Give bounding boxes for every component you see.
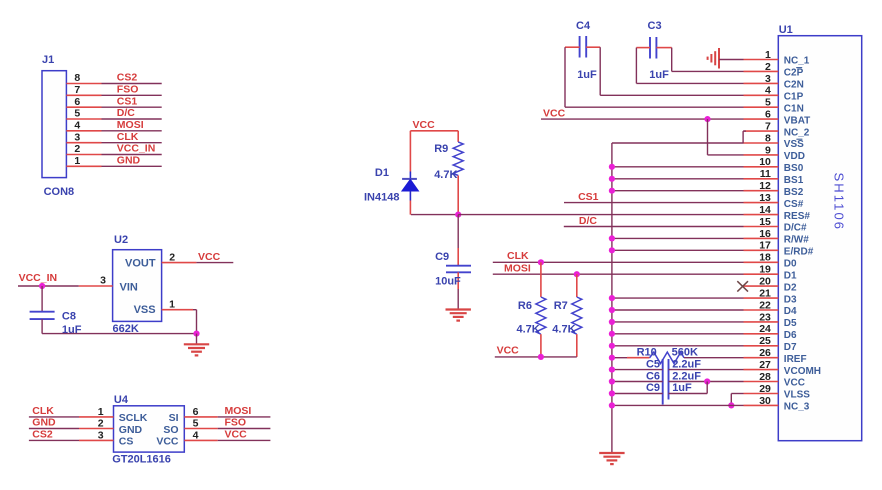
svg-text:26: 26 bbox=[759, 347, 771, 359]
wire net FSO bbox=[102, 94, 162, 96]
svg-text:FSO: FSO bbox=[117, 84, 139, 96]
svg-text:VIN: VIN bbox=[120, 281, 138, 293]
node CLK/R6 junction bbox=[538, 259, 544, 265]
wire ground bus to pin 11 (BS1) bbox=[612, 178, 744, 180]
svg-text:2.2uF: 2.2uF bbox=[672, 370, 701, 382]
ground (C9) bbox=[446, 308, 471, 310]
pin 2 of U1 (C2P) bbox=[744, 70, 779, 72]
svg-text:20: 20 bbox=[759, 276, 771, 288]
svg-text:4.7K: 4.7K bbox=[517, 324, 540, 336]
pin 6 of U4 (SI) bbox=[184, 416, 217, 418]
node bus junction pin 12 bbox=[609, 188, 615, 194]
pin 11 of U1 (BS1) bbox=[744, 178, 779, 180]
wire net VCC_IN bbox=[102, 154, 162, 156]
pin 4 of J1 bbox=[66, 130, 101, 132]
diode D1 IN4148 bbox=[409, 131, 411, 172]
pin 6 of U1 (VBAT) bbox=[744, 118, 779, 120]
wire net MOSI to pin 19 (D1) bbox=[493, 273, 744, 275]
node VCC_IN junction bbox=[39, 283, 45, 289]
svg-text:25: 25 bbox=[759, 335, 771, 347]
svg-text:MOSI: MOSI bbox=[504, 263, 531, 275]
svg-text:C1N: C1N bbox=[784, 103, 804, 114]
wire net VCC (right) bbox=[218, 439, 271, 441]
node RES junction bbox=[455, 212, 461, 218]
node bus junction (C5 row) bbox=[609, 367, 615, 373]
capacitor C8 bbox=[41, 286, 43, 312]
svg-text:5: 5 bbox=[765, 97, 771, 109]
wire ground bus to pin 24 (D6) bbox=[612, 333, 744, 335]
svg-text:D4: D4 bbox=[784, 306, 797, 317]
wire pin 1 to chassis ground bbox=[719, 59, 744, 61]
pin 19 of U1 (D1) bbox=[744, 273, 779, 275]
svg-text:CS#: CS# bbox=[784, 199, 804, 210]
pin 4 of U1 (C1P) bbox=[744, 94, 779, 96]
svg-text:CS2: CS2 bbox=[32, 429, 53, 441]
svg-text:560K: 560K bbox=[672, 346, 698, 358]
svg-text:E/RD#: E/RD# bbox=[784, 247, 814, 258]
pin 20 of U1 (D2) bbox=[744, 285, 779, 287]
wire net GND (left) bbox=[29, 428, 79, 430]
node VBAT junction bbox=[704, 116, 710, 122]
node VCC junction pin 28 bbox=[704, 378, 710, 384]
pin 2 of U2 (VOUT) bbox=[162, 262, 197, 264]
wire net MOSI bbox=[102, 130, 162, 132]
pin 13 of U1 (CS#) bbox=[744, 202, 779, 204]
wire D1 to RES junction bbox=[411, 214, 458, 216]
svg-text:RES#: RES# bbox=[784, 211, 811, 222]
pin 1 of J1 bbox=[66, 165, 101, 167]
pin 1 of U4 (SCLK) bbox=[79, 416, 114, 418]
wire net CS1 to pin 13 (CS#) bbox=[564, 202, 744, 204]
svg-text:2.2uF: 2.2uF bbox=[672, 358, 701, 370]
pin 22 of U1 (D4) bbox=[744, 309, 779, 311]
svg-text:VCOMH: VCOMH bbox=[784, 366, 821, 377]
pin 23 of U1 (D5) bbox=[744, 321, 779, 323]
svg-text:4.7K: 4.7K bbox=[552, 324, 575, 336]
svg-text:VCC: VCC bbox=[198, 251, 221, 263]
svg-text:D/C: D/C bbox=[579, 215, 598, 227]
pin 25 of U1 (D7) bbox=[744, 345, 779, 347]
svg-text:C2N: C2N bbox=[784, 80, 804, 91]
svg-text:BS1: BS1 bbox=[784, 175, 804, 186]
svg-text:D7: D7 bbox=[784, 342, 797, 353]
svg-text:11: 11 bbox=[760, 168, 771, 180]
wire net CS1 bbox=[102, 106, 162, 108]
svg-text:IREF: IREF bbox=[784, 354, 807, 365]
svg-text:CS2: CS2 bbox=[117, 72, 138, 84]
svg-text:13: 13 bbox=[759, 192, 771, 204]
svg-text:4: 4 bbox=[193, 430, 199, 442]
svg-text:NC_2: NC_2 bbox=[784, 127, 810, 138]
svg-text:17: 17 bbox=[759, 240, 771, 252]
node bus junction pin 16 bbox=[609, 235, 615, 241]
wire R10 to pin 26 (IREF) bbox=[684, 357, 744, 359]
svg-text:VCC: VCC bbox=[225, 429, 248, 441]
svg-text:SI: SI bbox=[169, 412, 179, 424]
pin 14 of U1 (RES#) bbox=[744, 214, 779, 216]
svg-text:21: 21 bbox=[759, 288, 771, 300]
svg-text:D/C#: D/C# bbox=[784, 223, 807, 234]
svg-text:C6: C6 bbox=[646, 370, 660, 382]
svg-text:VSS: VSS bbox=[784, 139, 804, 150]
svg-text:VOUT: VOUT bbox=[125, 258, 156, 270]
svg-text:1: 1 bbox=[98, 406, 104, 418]
regulator U2 body bbox=[113, 250, 162, 322]
resistor R9 bbox=[457, 131, 459, 142]
svg-text:29: 29 bbox=[759, 383, 771, 395]
svg-text:28: 28 bbox=[759, 371, 771, 383]
wire ground bus to pin 10 (BS0) bbox=[612, 166, 744, 168]
svg-text:U4: U4 bbox=[114, 394, 129, 406]
pin 1 of U2 (VSS) bbox=[162, 309, 193, 311]
capacitor C9 (10uF) bbox=[457, 215, 459, 248]
svg-text:VSS: VSS bbox=[134, 304, 156, 316]
wire net D/C to pin 15 (D/C#) bbox=[564, 226, 744, 228]
pin 9 of U1 (VDD) bbox=[744, 154, 779, 156]
wire C5 to pin 27 (VCOMH) bbox=[669, 369, 744, 371]
wire ground bus to pin 22 (D4) bbox=[612, 309, 744, 311]
resistor R10 bbox=[650, 352, 684, 363]
pin 2 of J1 bbox=[66, 154, 101, 156]
pin 16 of U1 (R/W#) bbox=[744, 237, 779, 239]
wire VCC from U2 pin 2 bbox=[196, 262, 233, 264]
ground (U2) bbox=[196, 334, 198, 345]
pin 26 of U1 (IREF) bbox=[744, 357, 779, 359]
pin 3 of J1 bbox=[66, 142, 101, 144]
svg-text:C5: C5 bbox=[646, 358, 660, 370]
node ground junction bbox=[193, 331, 199, 337]
node bus junction pin 30 bbox=[609, 402, 615, 408]
svg-text:10uF: 10uF bbox=[435, 276, 461, 288]
svg-text:C9: C9 bbox=[646, 382, 660, 394]
svg-text:3: 3 bbox=[765, 73, 771, 85]
svg-text:MOSI: MOSI bbox=[117, 119, 144, 131]
svg-text:R6: R6 bbox=[518, 300, 532, 312]
node bus junction pin 25 bbox=[609, 343, 615, 349]
connector J1 body bbox=[42, 71, 66, 178]
svg-text:CLK: CLK bbox=[507, 250, 529, 262]
svg-text:D3: D3 bbox=[784, 294, 797, 305]
node bus junction pin 22 bbox=[609, 307, 615, 313]
svg-text:9: 9 bbox=[765, 144, 771, 156]
wire net CS2 (left) bbox=[29, 439, 79, 441]
pin 30 of U1 (NC_3) bbox=[744, 404, 779, 406]
svg-text:6: 6 bbox=[193, 406, 199, 418]
svg-text:18: 18 bbox=[759, 252, 771, 264]
wire VCC bar (pullups) bbox=[495, 356, 577, 358]
svg-text:1uF: 1uF bbox=[649, 69, 669, 81]
svg-text:GND: GND bbox=[32, 417, 56, 429]
wire C3 right to pin 2 (C2P) bbox=[671, 48, 673, 72]
svg-text:CON8: CON8 bbox=[44, 186, 75, 198]
svg-text:VBAT: VBAT bbox=[784, 115, 810, 126]
svg-text:14: 14 bbox=[759, 204, 771, 216]
pin 8 of J1 bbox=[66, 83, 101, 85]
wire RES junction to pin 14 (RES#) bbox=[458, 214, 743, 216]
pin 3 of U2 (VIN) bbox=[79, 285, 113, 287]
svg-text:D1: D1 bbox=[784, 270, 797, 281]
wire C9(1uF) up to VCC net bbox=[669, 393, 708, 395]
svg-text:NC_3: NC_3 bbox=[784, 402, 810, 413]
svg-text:CLK: CLK bbox=[117, 131, 139, 143]
svg-text:SCLK: SCLK bbox=[119, 412, 148, 424]
overline on VSS pin name bbox=[796, 138, 802, 140]
pin 28 of U1 (VCC) bbox=[744, 381, 779, 383]
svg-text:D0: D0 bbox=[784, 259, 797, 270]
wire bus to capacitor C5 bbox=[612, 369, 663, 371]
wire ground bus to pin 12 (BS2) bbox=[612, 190, 744, 192]
svg-text:D/C: D/C bbox=[117, 107, 136, 119]
node bus junction pin 23 bbox=[609, 319, 615, 325]
node bus junction pin 17 bbox=[609, 247, 615, 253]
node VLSS/NC_3 junction bbox=[728, 402, 734, 408]
IC U1 body bbox=[778, 36, 861, 441]
pin 6 of J1 bbox=[66, 106, 101, 108]
svg-text:1uF: 1uF bbox=[672, 382, 692, 394]
node MOSI/R7 junction bbox=[574, 271, 580, 277]
pin 15 of U1 (D/C#) bbox=[744, 226, 779, 228]
svg-text:6: 6 bbox=[765, 109, 771, 121]
wire VBAT branch to pin 9 (VDD) bbox=[707, 119, 709, 155]
svg-text:8: 8 bbox=[765, 132, 771, 144]
wire net CLK bbox=[102, 142, 162, 144]
capacitor C5 plates (stack) bbox=[662, 359, 664, 405]
wire pin 29 (VLSS) jog to ground row bbox=[731, 393, 743, 395]
svg-text:C9: C9 bbox=[435, 251, 449, 263]
wire bus to R10 bbox=[612, 357, 627, 359]
svg-text:FSO: FSO bbox=[225, 417, 247, 429]
pin 4 of U4 (VCC) bbox=[184, 439, 217, 441]
svg-text:5: 5 bbox=[74, 108, 80, 120]
node bus junction (C6 row) bbox=[609, 378, 615, 384]
wire C8 to U2 ground bbox=[42, 333, 196, 335]
wire C4 right to pin 4 (C1P) bbox=[599, 47, 601, 95]
svg-text:U2: U2 bbox=[114, 234, 128, 246]
wire VCC_IN to U2 pin 3 bbox=[18, 285, 79, 287]
svg-text:2: 2 bbox=[74, 143, 80, 155]
pin 5 of U4 (SO) bbox=[184, 428, 217, 430]
svg-text:J1: J1 bbox=[42, 54, 54, 66]
chassis ground symbol (pin 1 NC_1) bbox=[718, 48, 720, 69]
pin 3 of U1 (C2N) bbox=[744, 82, 779, 84]
svg-text:VCC: VCC bbox=[784, 378, 805, 389]
svg-text:1: 1 bbox=[169, 299, 175, 311]
wire ground bus to pin 25 (D7) bbox=[612, 345, 744, 347]
svg-text:23: 23 bbox=[759, 311, 771, 323]
capacitor C4 bbox=[579, 36, 581, 58]
pin 17 of U1 (E/RD#) bbox=[744, 249, 779, 251]
wire bus to capacitor C6 bbox=[612, 381, 663, 383]
ground (bus) bbox=[599, 452, 624, 454]
svg-text:CS: CS bbox=[119, 436, 134, 448]
wire ground bus to pin 23 (D5) bbox=[612, 321, 744, 323]
svg-text:30: 30 bbox=[759, 395, 771, 407]
overline on C2P pin name bbox=[796, 67, 802, 69]
svg-text:7: 7 bbox=[765, 121, 771, 133]
wire C4 left to pin 5 (C1N) bbox=[564, 47, 566, 107]
pin 21 of U1 (D3) bbox=[744, 297, 779, 299]
svg-text:MOSI: MOSI bbox=[225, 405, 252, 417]
svg-text:D1: D1 bbox=[375, 167, 389, 179]
svg-text:8: 8 bbox=[74, 72, 80, 84]
node bus junction pin 10 bbox=[609, 164, 615, 170]
svg-text:2: 2 bbox=[765, 61, 771, 73]
svg-text:GND: GND bbox=[117, 155, 141, 167]
node bus junction (C9 row) bbox=[609, 390, 615, 396]
pin 29 of U1 (VLSS) bbox=[744, 393, 779, 395]
pin 5 of J1 bbox=[66, 118, 101, 120]
svg-text:R9: R9 bbox=[434, 143, 448, 155]
wire net CLK to pin 18 (D0) bbox=[493, 261, 744, 263]
svg-text:D5: D5 bbox=[784, 318, 797, 329]
svg-text:R10: R10 bbox=[637, 346, 657, 358]
svg-text:15: 15 bbox=[759, 216, 771, 228]
wire bus to capacitor C9 bbox=[612, 393, 663, 395]
svg-text:3: 3 bbox=[100, 275, 106, 287]
svg-text:5: 5 bbox=[193, 418, 199, 430]
wire net MOSI (right) bbox=[218, 416, 271, 418]
node bus junction pin 26 bbox=[609, 355, 615, 361]
pin 27 of U1 (VCOMH) bbox=[744, 369, 779, 371]
svg-text:VCC: VCC bbox=[543, 107, 566, 119]
svg-text:4.7K: 4.7K bbox=[434, 169, 457, 181]
svg-text:1: 1 bbox=[765, 49, 771, 61]
node bus junction pin 24 bbox=[609, 331, 615, 337]
svg-text:6: 6 bbox=[74, 96, 80, 108]
svg-text:2: 2 bbox=[98, 418, 104, 430]
svg-text:NC_1: NC_1 bbox=[784, 56, 810, 67]
pin 7 of J1 bbox=[66, 94, 101, 96]
wire VCC to pin 6 (VBAT) bbox=[541, 118, 744, 120]
svg-text:VCC: VCC bbox=[156, 436, 179, 448]
pin 12 of U1 (BS2) bbox=[744, 190, 779, 192]
svg-text:VDD: VDD bbox=[784, 151, 805, 162]
no-connect X (pin 20 D2) bbox=[737, 281, 748, 291]
svg-text:GND: GND bbox=[119, 424, 143, 436]
svg-text:22: 22 bbox=[759, 299, 771, 311]
pin 24 of U1 (D6) bbox=[744, 333, 779, 335]
svg-text:R7: R7 bbox=[554, 300, 568, 312]
pin 7 of U1 (NC_2) bbox=[744, 130, 779, 132]
node bus junction pin 11 bbox=[609, 176, 615, 182]
wire net GND bbox=[102, 165, 162, 167]
svg-text:VCC: VCC bbox=[413, 119, 436, 131]
pin 10 of U1 (BS0) bbox=[744, 166, 779, 168]
svg-text:10: 10 bbox=[759, 156, 771, 168]
svg-text:BS0: BS0 bbox=[784, 163, 804, 174]
svg-text:27: 27 bbox=[759, 359, 771, 371]
svg-text:VCC_IN: VCC_IN bbox=[19, 272, 58, 284]
wire pin 7 (NC_2) tie bbox=[743, 130, 746, 132]
svg-text:C3: C3 bbox=[648, 20, 662, 32]
node bus junction pin 21 bbox=[609, 295, 615, 301]
pin 2 of U4 (GND) bbox=[79, 428, 114, 430]
svg-text:C1P: C1P bbox=[784, 92, 804, 103]
wire ground bus to pin 17 (E/RD#) bbox=[612, 249, 744, 251]
svg-text:VCC_IN: VCC_IN bbox=[117, 143, 156, 155]
pin 18 of U1 (D0) bbox=[744, 261, 779, 263]
wire C3 left to pin 3 (C2N) bbox=[635, 48, 637, 84]
wire pin 8 (VSS) to ground bus bbox=[612, 142, 744, 144]
svg-text:7: 7 bbox=[74, 84, 80, 96]
svg-text:12: 12 bbox=[759, 180, 771, 192]
svg-text:4: 4 bbox=[765, 85, 771, 97]
svg-text:C4: C4 bbox=[576, 20, 591, 32]
svg-text:24: 24 bbox=[759, 323, 771, 335]
svg-text:4: 4 bbox=[74, 119, 80, 131]
svg-text:1uF: 1uF bbox=[577, 69, 597, 81]
svg-text:1: 1 bbox=[74, 155, 80, 167]
wire net D/C bbox=[102, 118, 162, 120]
wire U2 VSS to ground bbox=[193, 309, 197, 311]
svg-text:VLSS: VLSS bbox=[784, 390, 810, 401]
wire net CS2 bbox=[102, 83, 162, 85]
resistor R6 bbox=[540, 262, 542, 297]
svg-text:R/W#: R/W# bbox=[784, 235, 809, 246]
svg-text:C2P: C2P bbox=[784, 68, 804, 79]
svg-text:CS1: CS1 bbox=[578, 191, 599, 203]
chip U4 body bbox=[114, 406, 185, 452]
wire net CLK (left) bbox=[29, 416, 79, 418]
ground bus vertical bbox=[611, 143, 613, 453]
pin 5 of U1 (C1N) bbox=[744, 106, 779, 108]
svg-text:VCC: VCC bbox=[497, 345, 520, 357]
svg-text:D2: D2 bbox=[784, 282, 797, 293]
pin 1 of U1 (NC_1) bbox=[744, 59, 779, 61]
svg-text:CLK: CLK bbox=[32, 405, 54, 417]
svg-text:BS2: BS2 bbox=[784, 187, 804, 198]
svg-text:2: 2 bbox=[169, 251, 175, 263]
svg-text:GT20L1616: GT20L1616 bbox=[112, 454, 171, 466]
resistor R7 bbox=[576, 274, 578, 297]
svg-text:IN4148: IN4148 bbox=[364, 191, 399, 203]
svg-text:SH1106: SH1106 bbox=[832, 173, 847, 232]
svg-text:3: 3 bbox=[74, 131, 80, 143]
pin 8 of U1 (VSS) bbox=[744, 142, 779, 144]
wire C6 to pin 28 (VCC) bbox=[669, 381, 744, 383]
svg-text:CS1: CS1 bbox=[117, 95, 138, 107]
svg-text:U1: U1 bbox=[779, 24, 793, 36]
wire ground bus to pin 21 (D3) bbox=[612, 297, 744, 299]
wire net FSO (right) bbox=[218, 428, 271, 430]
svg-text:16: 16 bbox=[759, 228, 771, 240]
wire bus to pin 30 (NC_3) bbox=[612, 404, 744, 406]
svg-text:C8: C8 bbox=[62, 310, 76, 322]
node R6/VCC junction bbox=[538, 354, 544, 360]
svg-text:3: 3 bbox=[98, 430, 104, 442]
svg-text:SO: SO bbox=[163, 424, 178, 436]
capacitor C3 bbox=[649, 37, 651, 59]
wire ground bus to pin 16 (R/W#) bbox=[612, 237, 744, 239]
wire VCC bar to R9 top bbox=[410, 130, 458, 132]
pin 3 of U4 (CS) bbox=[79, 439, 114, 441]
svg-text:D6: D6 bbox=[784, 330, 797, 341]
svg-text:19: 19 bbox=[759, 264, 771, 276]
